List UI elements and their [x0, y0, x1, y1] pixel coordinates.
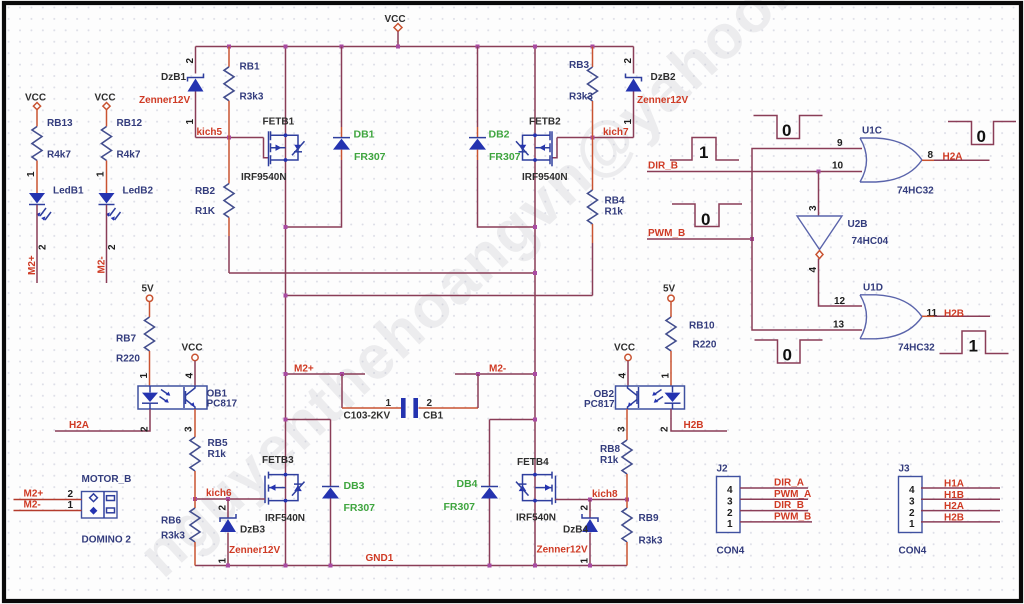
- svg-text:RB13: RB13: [47, 118, 73, 129]
- svg-text:1: 1: [386, 398, 392, 409]
- svg-text:IRF540N: IRF540N: [516, 513, 556, 524]
- svg-text:Zenner12V: Zenner12V: [139, 95, 190, 106]
- svg-text:2: 2: [38, 244, 49, 250]
- svg-text:RB10: RB10: [689, 321, 715, 332]
- svg-text:R3k3: R3k3: [639, 536, 663, 547]
- svg-text:M2+: M2+: [27, 255, 38, 275]
- svg-text:0: 0: [977, 127, 986, 146]
- VCC power symbol (OB2): [614, 343, 635, 387]
- pulse symbol 3 (PWM_B, value 0): [672, 204, 742, 229]
- svg-text:4: 4: [727, 485, 733, 496]
- svg-text:U1D: U1D: [863, 283, 883, 294]
- svg-text:3: 3: [184, 426, 195, 432]
- svg-text:M2-: M2-: [24, 500, 41, 511]
- wire: net PWM_B: [647, 228, 754, 241]
- svg-text:R1K: R1K: [195, 206, 216, 217]
- pulse symbol 2 (DIR_B, value 1): [670, 138, 739, 163]
- svg-text:VCC: VCC: [182, 343, 203, 354]
- svg-text:PWM_A: PWM_A: [774, 489, 811, 500]
- svg-text:9: 9: [837, 138, 843, 149]
- svg-text:4: 4: [185, 373, 196, 379]
- svg-text:CB1: CB1: [423, 411, 443, 422]
- svg-text:R1k: R1k: [600, 455, 619, 466]
- wire: net GND1: [195, 553, 627, 568]
- resistor RB2: [195, 138, 234, 274]
- svg-text:LedB1: LedB1: [53, 186, 84, 197]
- resistor RB6: [161, 499, 200, 566]
- svg-text:DIR_A: DIR_A: [774, 478, 804, 489]
- svg-text:2: 2: [727, 508, 733, 519]
- resistor RB4: [588, 138, 625, 296]
- op-gate U1D 74HC32: [833, 283, 938, 354]
- wire: LedB1 to net M2+: [27, 205, 49, 283]
- wire: FETB1 source column (drops to GND through FETB3): [285, 47, 287, 566]
- svg-text:DB1: DB1: [354, 129, 375, 141]
- zener DzB1 Zenner12V: [139, 47, 204, 138]
- svg-text:74HC32: 74HC32: [898, 343, 935, 354]
- wire: FETB3 drain jog to DB3: [284, 418, 331, 422]
- svg-text:VCC: VCC: [25, 93, 46, 104]
- svg-text:2: 2: [909, 508, 915, 519]
- svg-text:1: 1: [727, 519, 733, 530]
- transistor FETB3: [262, 455, 305, 524]
- op-gate U1C 74HC32: [832, 126, 934, 197]
- optocoupler OB2 PC817: [584, 386, 685, 410]
- svg-text:1: 1: [68, 500, 74, 511]
- svg-text:2: 2: [580, 505, 591, 511]
- resistor RB3: [569, 47, 598, 138]
- svg-text:DB2: DB2: [489, 129, 510, 141]
- pulse symbol 6 (H2B output, value 1): [940, 331, 1009, 356]
- svg-text:1: 1: [623, 119, 634, 125]
- node: bus junctions: [227, 45, 595, 49]
- svg-text:J3: J3: [899, 464, 911, 475]
- svg-text:1: 1: [96, 171, 107, 177]
- svg-text:LedB2: LedB2: [123, 186, 154, 197]
- resistor RB10: [661, 302, 717, 387]
- svg-text:M2+: M2+: [294, 364, 314, 375]
- svg-text:Zenner12V: Zenner12V: [537, 545, 588, 556]
- LED LedB2: [99, 186, 154, 221]
- svg-text:PWM_B: PWM_B: [774, 511, 811, 522]
- svg-text:RB5: RB5: [208, 438, 228, 449]
- svg-text:VCC: VCC: [385, 14, 406, 25]
- resistor RB1: [224, 47, 264, 138]
- wire: J2 pin 3 net PWM_A: [740, 489, 811, 500]
- svg-text:1: 1: [661, 373, 672, 379]
- svg-text:IRF9540N: IRF9540N: [241, 172, 287, 183]
- svg-text:PWM_B: PWM_B: [648, 228, 685, 239]
- svg-text:R220: R220: [693, 340, 717, 351]
- svg-text:3: 3: [909, 497, 915, 508]
- svg-text:4: 4: [909, 485, 915, 496]
- svg-text:VCC: VCC: [95, 93, 116, 104]
- svg-text:kich8: kich8: [592, 489, 618, 500]
- svg-text:12: 12: [834, 296, 846, 307]
- pulse symbol 5 (below U1D pin 13, value 0): [755, 340, 823, 365]
- svg-text:CON4: CON4: [717, 546, 745, 557]
- zener DzB4 Zenner12V: [537, 500, 599, 566]
- pulse symbol 4 (H2A output, value 0): [948, 122, 1016, 147]
- svg-text:DIR_B: DIR_B: [774, 500, 804, 511]
- wire: net M2+: [284, 364, 366, 377]
- VCC power symbol (OB1): [182, 343, 203, 387]
- svg-text:1: 1: [218, 558, 229, 564]
- optocoupler OB1 PC817: [138, 386, 238, 410]
- wire: net M2-: [455, 364, 537, 377]
- svg-text:5V: 5V: [663, 284, 676, 295]
- svg-text:DzB1: DzB1: [161, 72, 186, 83]
- capacitor CB1 C103-2KV: [342, 374, 478, 422]
- svg-text:FR307: FR307: [489, 151, 521, 163]
- svg-text:2: 2: [218, 505, 229, 511]
- svg-text:J2: J2: [717, 464, 729, 475]
- svg-text:IRF9540N: IRF9540N: [522, 172, 568, 183]
- svg-text:R1k: R1k: [208, 449, 227, 460]
- transistor FETB4: [516, 457, 556, 524]
- svg-text:11: 11: [927, 308, 938, 319]
- svg-text:RB4: RB4: [605, 196, 625, 207]
- svg-text:H1A: H1A: [944, 479, 964, 490]
- svg-text:MOTOR_B: MOTOR_B: [82, 474, 132, 485]
- wire: J3 pin 2 net H2A: [921, 501, 1000, 512]
- svg-text:DzB3: DzB3: [240, 525, 265, 536]
- svg-text:74HC04: 74HC04: [852, 236, 889, 247]
- wire: DIR_B branch to U2B input: [818, 172, 820, 217]
- svg-text:FR307: FR307: [354, 151, 386, 163]
- svg-text:1: 1: [580, 558, 591, 564]
- 5V power symbol (RB7): [142, 284, 155, 302]
- wire: J3 pin 3 net H1B: [921, 490, 1000, 501]
- wire: net H2A: [55, 409, 151, 432]
- svg-text:RB7: RB7: [116, 334, 136, 345]
- svg-text:C103-2KV: C103-2KV: [344, 411, 391, 422]
- wire: PWM_B branch to U1C pin 9 and U1D pin 13: [752, 149, 862, 331]
- VCC power symbol (LedB2 column): [95, 93, 116, 110]
- svg-text:H2A: H2A: [944, 501, 964, 512]
- wire: top VCC bus: [196, 46, 634, 48]
- wire: net kich8: [555, 489, 629, 502]
- resistor RB12: [96, 110, 143, 193]
- svg-text:4: 4: [808, 267, 819, 273]
- svg-text:2: 2: [185, 58, 196, 64]
- connector J3 CON4: [899, 464, 927, 557]
- svg-text:2: 2: [623, 58, 634, 64]
- svg-text:FETB4: FETB4: [517, 457, 549, 468]
- svg-text:RB8: RB8: [600, 444, 620, 455]
- zener DzB2 Zenner12V: [623, 47, 688, 138]
- svg-text:R1k: R1k: [605, 207, 624, 218]
- wire: MOTOR_B pin 1 (M2-): [14, 500, 82, 512]
- svg-text:2: 2: [140, 426, 151, 432]
- svg-text:DzB4: DzB4: [563, 525, 588, 536]
- svg-text:Zenner12V: Zenner12V: [229, 545, 280, 556]
- svg-text:R3k3: R3k3: [569, 92, 593, 103]
- transistor FETB1: [241, 117, 305, 184]
- LED LedB1: [29, 186, 84, 221]
- svg-text:0: 0: [782, 121, 791, 140]
- wire: U1D output net H2B: [922, 309, 990, 320]
- svg-text:DOMINO 2: DOMINO 2: [82, 535, 132, 546]
- svg-text:PC817: PC817: [584, 399, 615, 410]
- svg-text:2: 2: [427, 398, 433, 409]
- svg-text:FETB3: FETB3: [262, 455, 294, 466]
- svg-text:R220: R220: [116, 354, 140, 365]
- wire: J3 pin 4 net H1A: [921, 479, 1000, 490]
- svg-text:R4k7: R4k7: [47, 150, 71, 161]
- wire: J2 pin 1 net PWM_B: [740, 511, 812, 522]
- svg-text:FETB2: FETB2: [529, 117, 561, 128]
- wire: J3 pin 1 net H2B: [921, 512, 1000, 523]
- svg-text:H1B: H1B: [944, 490, 964, 501]
- wire: U1C output net H2A: [922, 152, 990, 163]
- svg-text:8: 8: [928, 150, 934, 161]
- wire: J2 pin 2 net DIR_B: [740, 500, 808, 511]
- diode DB2 FR307: [469, 47, 537, 230]
- svg-text:H2B: H2B: [684, 420, 704, 431]
- svg-text:H2B: H2B: [944, 309, 964, 320]
- svg-text:2: 2: [660, 426, 671, 432]
- svg-text:RB9: RB9: [639, 513, 659, 524]
- svg-text:M2+: M2+: [24, 489, 44, 500]
- wire: net DIR_B: [647, 161, 862, 174]
- svg-text:CON4: CON4: [899, 546, 927, 557]
- svg-text:H2A: H2A: [69, 420, 89, 431]
- inverter U2B 74HC04: [797, 205, 889, 273]
- zener DzB3 Zenner12V: [218, 499, 281, 566]
- VCC power symbol (top): [385, 14, 406, 47]
- svg-text:GND1: GND1: [366, 553, 394, 564]
- wire: net kich7: [557, 127, 634, 140]
- svg-text:1: 1: [909, 519, 915, 530]
- diode DB1 FR307: [284, 47, 386, 230]
- svg-text:3: 3: [617, 426, 628, 432]
- svg-text:DzB2: DzB2: [651, 72, 676, 83]
- VCC power symbol (LedB1 column): [25, 93, 46, 110]
- svg-text:1: 1: [185, 119, 196, 125]
- wire: U2B output to U1D pin 12: [819, 259, 863, 307]
- svg-text:DB3: DB3: [344, 480, 365, 492]
- svg-text:FETB1: FETB1: [263, 117, 295, 128]
- svg-text:0: 0: [701, 210, 710, 229]
- svg-text:RB12: RB12: [117, 118, 143, 129]
- svg-text:DB4: DB4: [457, 478, 478, 490]
- wire: RB2 to FETB2 drain (cross link): [229, 271, 537, 275]
- resistor RB8: [600, 409, 632, 500]
- svg-text:FR307: FR307: [444, 501, 476, 513]
- svg-text:1: 1: [139, 373, 150, 379]
- svg-text:M2-: M2-: [489, 364, 506, 375]
- svg-text:1: 1: [699, 143, 708, 162]
- connector J2 CON4: [717, 464, 745, 557]
- svg-text:U1C: U1C: [862, 126, 882, 137]
- svg-text:5V: 5V: [142, 284, 155, 295]
- resistor RB7: [116, 302, 155, 387]
- svg-text:DIR_B: DIR_B: [648, 161, 678, 172]
- svg-text:kich7: kich7: [603, 127, 629, 138]
- svg-text:VCC: VCC: [614, 343, 635, 354]
- svg-text:R3k3: R3k3: [161, 531, 185, 542]
- wire: FETB2 source column (drops to GND through FETB4): [534, 47, 536, 566]
- svg-text:3: 3: [808, 205, 819, 211]
- svg-text:10: 10: [832, 161, 844, 172]
- svg-text:1: 1: [26, 171, 37, 177]
- wire: net kich6: [193, 488, 265, 501]
- svg-text:Zenner12V: Zenner12V: [637, 95, 688, 106]
- wire: RB4 to FETB1 drain (cross link): [284, 294, 593, 298]
- svg-text:RB1: RB1: [240, 62, 260, 73]
- 5V power symbol (RB10): [663, 284, 676, 302]
- diode DB4 FR307: [444, 420, 499, 566]
- wire: LedB2 to net M2-: [97, 205, 119, 283]
- svg-text:1: 1: [969, 337, 978, 356]
- connector MOTOR_B DOMINO 2: [82, 474, 132, 546]
- svg-text:M2-: M2-: [97, 256, 108, 273]
- svg-text:3: 3: [727, 497, 733, 508]
- svg-text:U2B: U2B: [848, 219, 868, 230]
- wire: net kich5: [196, 127, 264, 140]
- svg-text:FR307: FR307: [344, 502, 376, 514]
- diode DB3 FR307: [322, 420, 375, 566]
- svg-text:R3k3: R3k3: [240, 92, 264, 103]
- svg-text:13: 13: [833, 320, 845, 331]
- svg-text:RB2: RB2: [195, 186, 215, 197]
- wire: FETB4 drain jog to DB4: [490, 418, 538, 422]
- wire: J2 pin 4 net DIR_A: [740, 478, 808, 489]
- svg-text:2: 2: [107, 244, 118, 250]
- svg-text:4: 4: [618, 373, 629, 379]
- pulse symbol 1 (above U1C, value 0): [754, 116, 823, 141]
- svg-text:IRF540N: IRF540N: [265, 513, 305, 524]
- resistor RB9: [622, 500, 663, 566]
- svg-text:RB6: RB6: [161, 516, 181, 527]
- wire: MOTOR_B pin 2 (M2+): [14, 489, 82, 501]
- svg-text:H2A: H2A: [943, 152, 963, 163]
- svg-text:R4k7: R4k7: [117, 150, 141, 161]
- svg-text:74HC32: 74HC32: [897, 186, 934, 197]
- wire: net H2B: [660, 409, 728, 432]
- svg-text:RB3: RB3: [569, 60, 589, 71]
- svg-text:H2B: H2B: [944, 512, 964, 523]
- resistor RB13: [26, 110, 73, 193]
- resistor RB5: [184, 409, 228, 499]
- transistor FETB2: [516, 117, 568, 184]
- svg-text:PC817: PC817: [207, 399, 238, 410]
- svg-text:2: 2: [68, 489, 74, 500]
- svg-text:0: 0: [783, 346, 792, 365]
- svg-text:kich5: kich5: [197, 127, 223, 138]
